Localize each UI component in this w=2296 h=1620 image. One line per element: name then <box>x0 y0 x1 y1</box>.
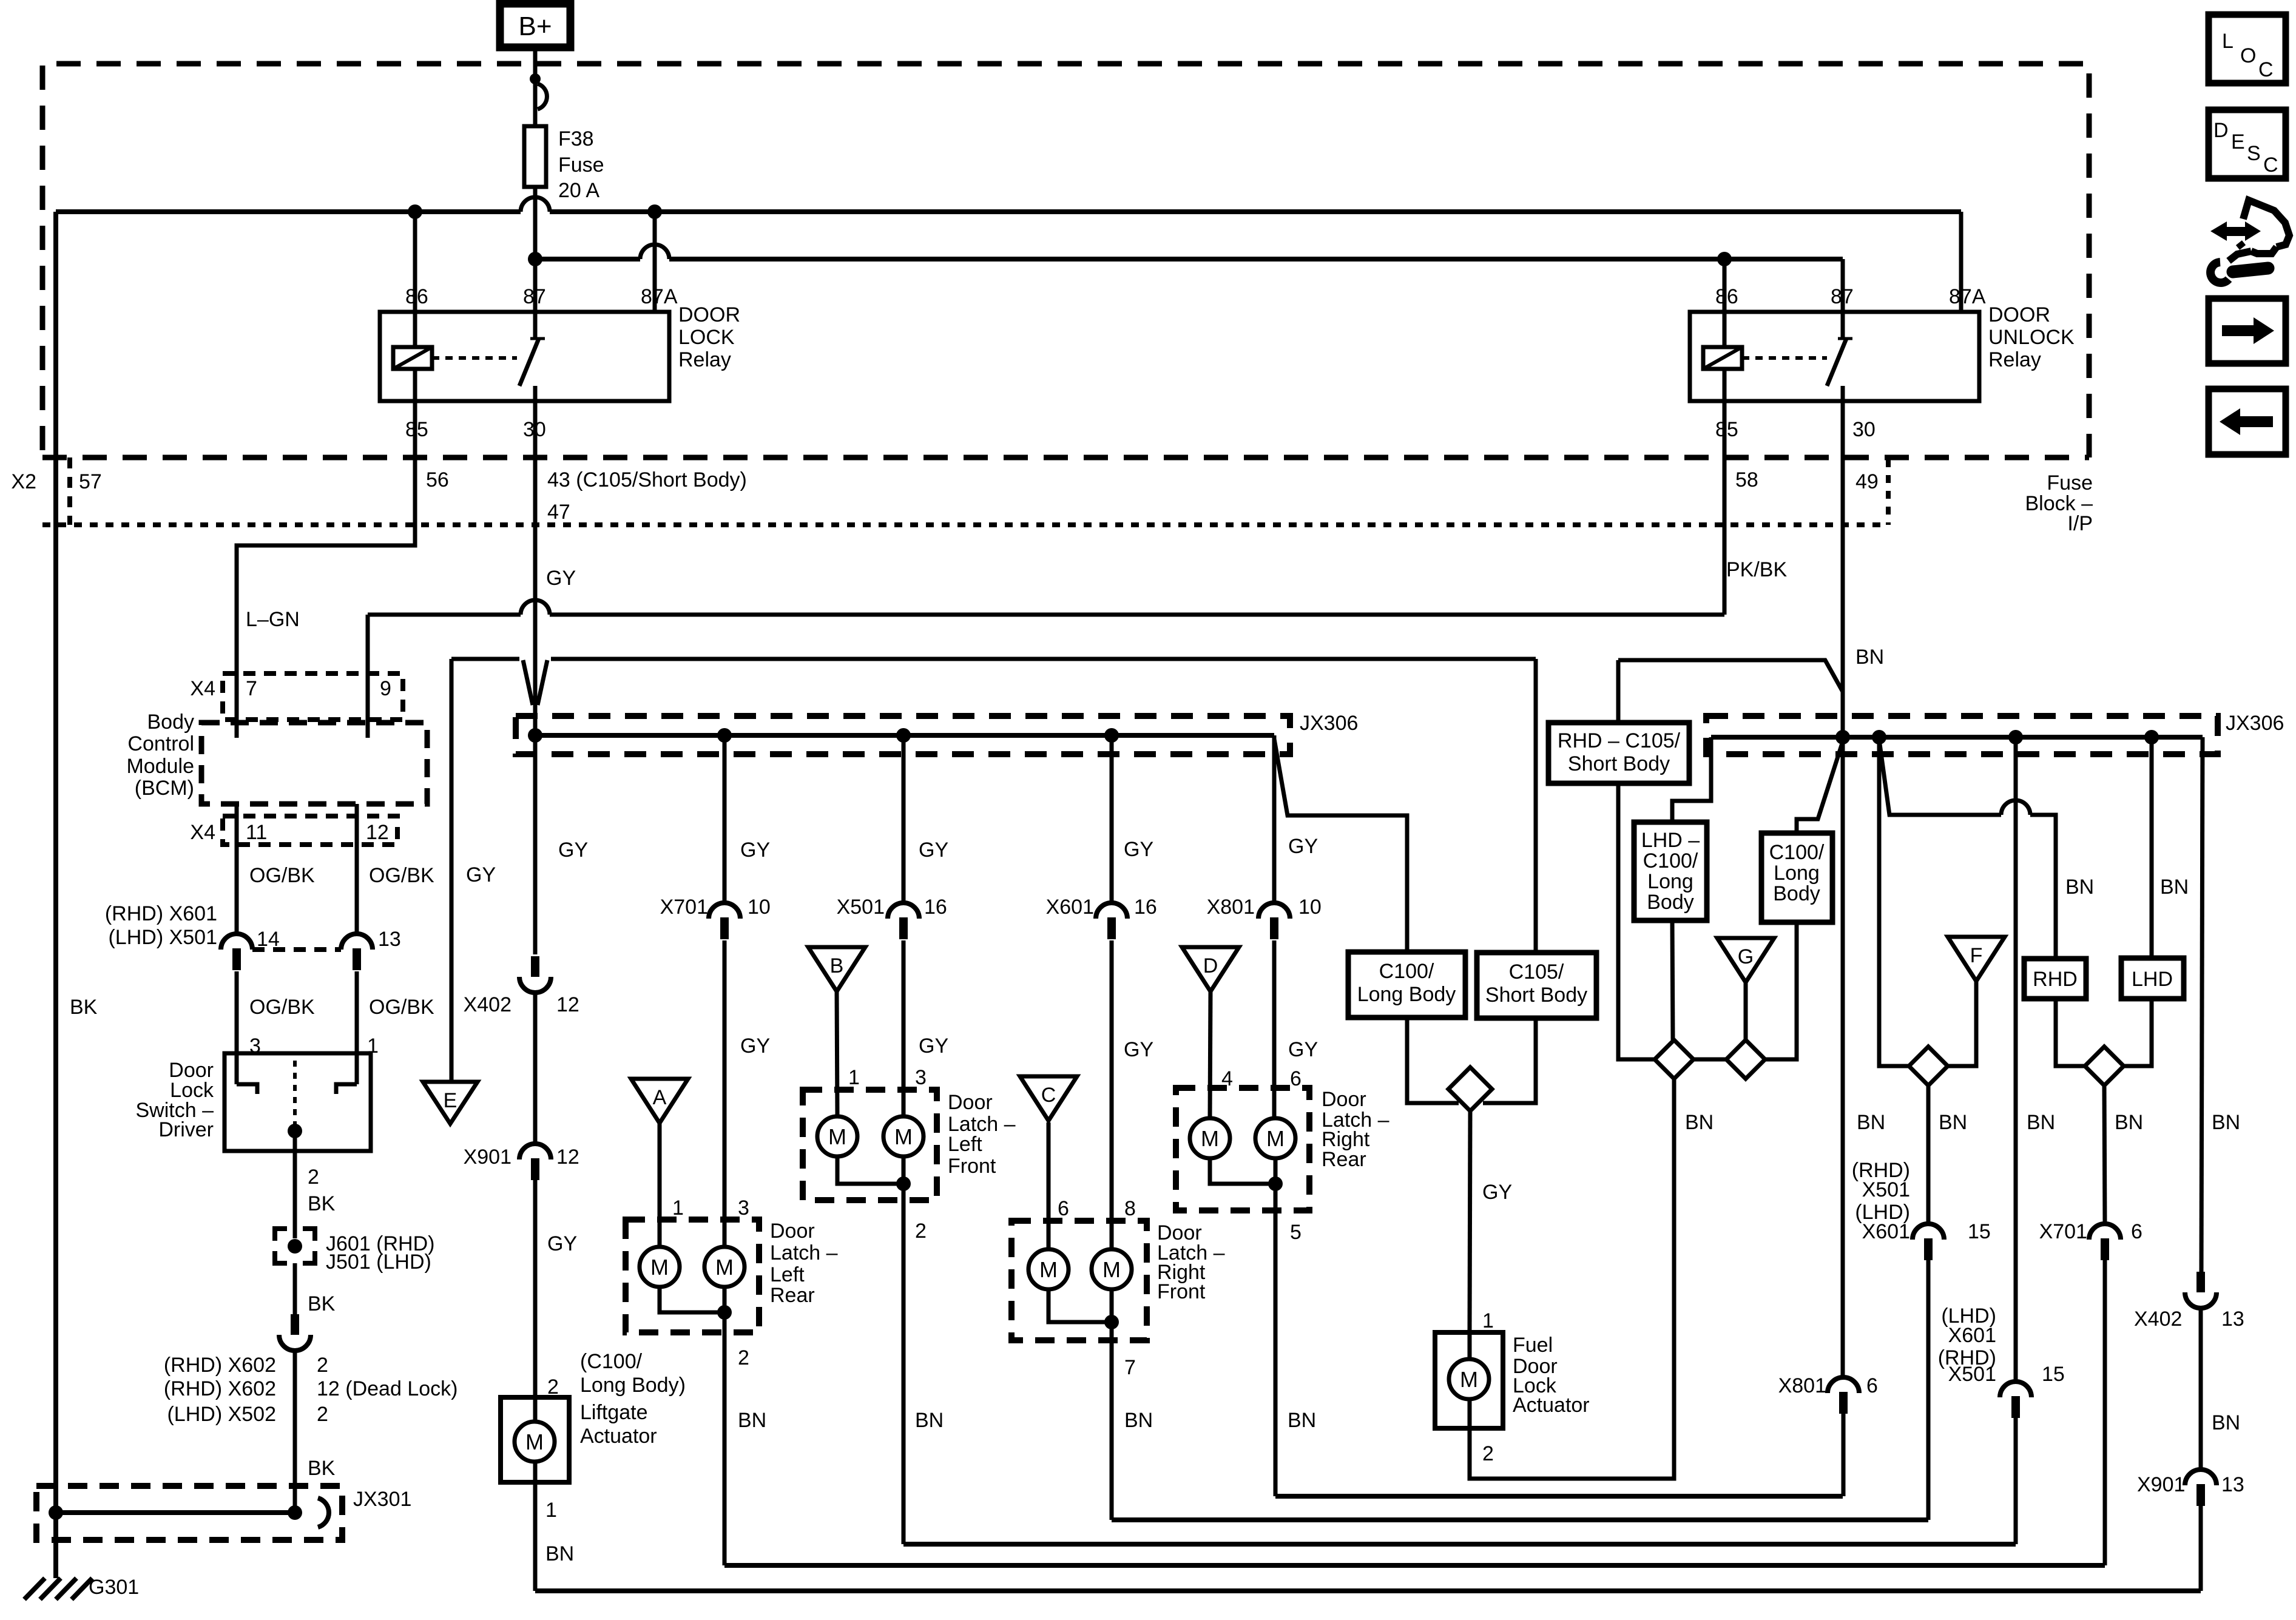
svg-text:BN: BN <box>1855 646 1884 669</box>
svg-text:BN: BN <box>2065 876 2094 899</box>
svg-text:3: 3 <box>738 1196 749 1220</box>
svg-text:Front: Front <box>948 1155 996 1178</box>
svg-text:2: 2 <box>1482 1442 1494 1465</box>
svg-text:2: 2 <box>738 1346 749 1369</box>
svg-text:BN: BN <box>738 1409 766 1432</box>
svg-text:Latch –: Latch – <box>770 1241 838 1264</box>
svg-text:12: 12 <box>366 821 389 844</box>
svg-text:JX306: JX306 <box>1300 712 1358 735</box>
svg-text:Body: Body <box>147 710 195 734</box>
svg-text:OG/BK: OG/BK <box>369 996 434 1019</box>
svg-text:GY: GY <box>740 839 770 862</box>
svg-text:S: S <box>2247 142 2261 165</box>
svg-text:1: 1 <box>672 1196 684 1220</box>
svg-text:15: 15 <box>2042 1363 2065 1386</box>
svg-text:X601: X601 <box>1862 1220 1910 1243</box>
svg-text:(RHD) X602: (RHD) X602 <box>164 1354 276 1377</box>
svg-text:E: E <box>2231 130 2245 154</box>
svg-text:GY: GY <box>466 863 496 886</box>
svg-text:Long Body): Long Body) <box>580 1374 686 1397</box>
svg-text:BN: BN <box>1857 1111 1885 1134</box>
svg-text:BN: BN <box>545 1542 574 1565</box>
svg-text:5: 5 <box>1290 1221 1302 1244</box>
svg-text:4: 4 <box>1221 1067 1233 1090</box>
svg-text:X901: X901 <box>2137 1473 2185 1496</box>
svg-text:DOOR: DOOR <box>678 303 740 326</box>
svg-text:E: E <box>444 1089 458 1112</box>
svg-text:87A: 87A <box>1949 285 1986 308</box>
svg-text:D: D <box>1203 954 1218 977</box>
svg-text:Relay: Relay <box>1988 348 2041 371</box>
svg-text:X402: X402 <box>464 993 512 1016</box>
svg-text:Fuse: Fuse <box>2047 471 2093 494</box>
svg-text:BN: BN <box>2027 1111 2055 1134</box>
svg-text:Fuel: Fuel <box>1513 1334 1553 1357</box>
svg-text:12: 12 <box>556 1146 579 1169</box>
svg-text:Rear: Rear <box>770 1284 815 1307</box>
svg-text:X701: X701 <box>2039 1220 2087 1243</box>
svg-text:Door: Door <box>1322 1088 1366 1111</box>
svg-text:X601: X601 <box>1948 1324 1996 1347</box>
svg-text:DOOR: DOOR <box>1988 303 2050 326</box>
svg-text:GY: GY <box>1124 1038 1153 1061</box>
svg-text:OG/BK: OG/BK <box>249 864 315 887</box>
svg-text:49: 49 <box>1855 470 1879 493</box>
svg-text:L–GN: L–GN <box>246 608 300 631</box>
svg-text:Relay: Relay <box>678 348 731 371</box>
svg-text:BK: BK <box>70 996 98 1019</box>
svg-text:Control: Control <box>127 732 194 755</box>
svg-text:6: 6 <box>1290 1067 1302 1090</box>
svg-text:BN: BN <box>2160 876 2189 899</box>
svg-text:7: 7 <box>246 677 257 700</box>
svg-text:L: L <box>2222 30 2234 53</box>
svg-text:Rear: Rear <box>1322 1148 1366 1171</box>
svg-text:X4: X4 <box>190 677 215 700</box>
svg-text:BN: BN <box>1288 1409 1316 1432</box>
svg-text:X501: X501 <box>837 896 885 919</box>
svg-text:LOCK: LOCK <box>678 326 735 349</box>
svg-text:Door: Door <box>948 1091 993 1114</box>
svg-text:Long: Long <box>1774 862 1820 885</box>
svg-text:(C100/: (C100/ <box>580 1350 643 1373</box>
svg-text:J501 (LHD): J501 (LHD) <box>326 1250 431 1274</box>
svg-text:2: 2 <box>317 1403 328 1426</box>
svg-text:BK: BK <box>308 1457 336 1480</box>
svg-text:BN: BN <box>1124 1409 1153 1432</box>
svg-text:BN: BN <box>1939 1111 1967 1134</box>
svg-text:GY: GY <box>546 567 576 590</box>
svg-text:X2: X2 <box>11 470 36 493</box>
svg-text:C100/: C100/ <box>1379 960 1434 983</box>
svg-text:X4: X4 <box>190 821 215 844</box>
svg-text:Left: Left <box>948 1133 982 1156</box>
svg-text:BK: BK <box>308 1292 336 1315</box>
svg-text:M: M <box>525 1429 544 1454</box>
svg-text:12 (Dead Lock): 12 (Dead Lock) <box>317 1377 458 1400</box>
svg-text:3: 3 <box>915 1066 927 1089</box>
svg-text:(RHD) X601: (RHD) X601 <box>105 902 217 925</box>
svg-text:X801: X801 <box>1778 1374 1826 1397</box>
svg-text:PK/BK: PK/BK <box>1726 558 1787 581</box>
svg-text:58: 58 <box>1735 468 1758 491</box>
svg-text:G301: G301 <box>89 1576 139 1599</box>
svg-text:(LHD) X502: (LHD) X502 <box>167 1403 276 1426</box>
svg-text:X801: X801 <box>1207 896 1255 919</box>
svg-text:Short Body: Short Body <box>1485 984 1587 1007</box>
svg-text:Actuator: Actuator <box>580 1425 657 1448</box>
svg-text:RHD – C105/: RHD – C105/ <box>1558 729 1681 752</box>
svg-text:O: O <box>2240 44 2256 67</box>
svg-text:6: 6 <box>1866 1374 1878 1397</box>
svg-text:X402: X402 <box>2134 1308 2182 1331</box>
svg-text:GY: GY <box>919 839 948 862</box>
svg-text:F: F <box>1970 944 1983 967</box>
svg-text:BK: BK <box>308 1192 336 1215</box>
svg-text:2: 2 <box>317 1354 328 1377</box>
svg-text:X901: X901 <box>464 1146 512 1169</box>
svg-text:C100/: C100/ <box>1769 841 1825 864</box>
svg-text:2: 2 <box>308 1166 319 1189</box>
svg-text:56: 56 <box>426 468 449 491</box>
svg-text:7: 7 <box>1124 1356 1136 1379</box>
svg-text:87: 87 <box>1831 285 1854 308</box>
svg-text:JX301: JX301 <box>353 1488 411 1511</box>
svg-text:M: M <box>1201 1126 1219 1151</box>
svg-text:JX306: JX306 <box>2226 712 2284 735</box>
svg-text:86: 86 <box>405 285 428 308</box>
svg-text:C105/: C105/ <box>1509 960 1564 984</box>
svg-text:M: M <box>715 1255 734 1280</box>
svg-text:13: 13 <box>378 928 401 951</box>
svg-text:43 (C105/Short Body): 43 (C105/Short Body) <box>547 468 747 491</box>
svg-text:GY: GY <box>919 1034 948 1058</box>
svg-text:87: 87 <box>523 285 546 308</box>
svg-text:(BCM): (BCM) <box>135 777 194 800</box>
svg-text:Front: Front <box>1157 1280 1206 1303</box>
svg-text:9: 9 <box>380 677 391 700</box>
svg-text:UNLOCK: UNLOCK <box>1988 326 2075 349</box>
svg-text:RHD: RHD <box>2033 968 2078 991</box>
svg-text:1: 1 <box>545 1499 557 1522</box>
svg-text:Long: Long <box>1647 870 1693 893</box>
svg-text:M: M <box>1039 1257 1058 1282</box>
svg-text:Short Body: Short Body <box>1568 752 1670 775</box>
svg-text:GY: GY <box>1482 1181 1512 1204</box>
svg-text:C: C <box>1041 1084 1056 1107</box>
svg-text:GY: GY <box>1124 838 1153 861</box>
svg-text:6: 6 <box>1058 1197 1069 1220</box>
svg-text:12: 12 <box>556 993 579 1016</box>
svg-text:57: 57 <box>79 470 102 493</box>
svg-text:Actuator: Actuator <box>1513 1394 1590 1417</box>
svg-text:G: G <box>1738 945 1754 968</box>
svg-text:C: C <box>2263 154 2278 177</box>
svg-text:F38: F38 <box>558 127 594 150</box>
svg-text:BN: BN <box>2115 1111 2143 1134</box>
svg-text:87A: 87A <box>641 285 678 308</box>
svg-text:86: 86 <box>1715 285 1738 308</box>
svg-text:M: M <box>828 1124 846 1149</box>
svg-text:15: 15 <box>1968 1220 1991 1243</box>
svg-text:2: 2 <box>915 1220 927 1243</box>
svg-text:LHD: LHD <box>2132 968 2173 991</box>
svg-text:Liftgate: Liftgate <box>580 1401 648 1424</box>
svg-text:B+: B+ <box>518 12 552 41</box>
svg-text:Body: Body <box>1773 882 1820 905</box>
svg-text:Body: Body <box>1647 891 1694 914</box>
svg-text:GY: GY <box>1288 835 1318 858</box>
svg-text:85: 85 <box>405 418 428 441</box>
svg-text:GY: GY <box>547 1232 577 1255</box>
svg-text:I/P: I/P <box>2067 512 2093 535</box>
svg-text:X501: X501 <box>1862 1178 1910 1201</box>
svg-text:GY: GY <box>1288 1038 1318 1061</box>
svg-text:8: 8 <box>1124 1197 1136 1220</box>
svg-text:10: 10 <box>1298 896 1322 919</box>
svg-text:X601: X601 <box>1046 896 1094 919</box>
svg-text:47: 47 <box>547 501 570 524</box>
svg-text:Long Body: Long Body <box>1357 983 1456 1006</box>
svg-text:16: 16 <box>924 896 947 919</box>
svg-text:X501: X501 <box>1948 1363 1996 1386</box>
svg-text:1: 1 <box>848 1066 860 1089</box>
svg-text:A: A <box>653 1086 667 1109</box>
svg-text:BN: BN <box>1685 1111 1714 1134</box>
svg-text:M: M <box>650 1255 669 1280</box>
svg-text:6: 6 <box>2131 1220 2142 1243</box>
svg-text:Driver: Driver <box>158 1118 214 1141</box>
svg-text:X701: X701 <box>660 896 708 919</box>
svg-text:11: 11 <box>246 821 267 844</box>
svg-text:85: 85 <box>1715 418 1738 441</box>
svg-text:(LHD) X501: (LHD) X501 <box>108 926 217 949</box>
svg-text:13: 13 <box>2221 1473 2244 1496</box>
svg-text:M: M <box>894 1124 913 1149</box>
svg-text:C: C <box>2258 58 2274 81</box>
svg-text:16: 16 <box>1134 896 1157 919</box>
svg-text:BN: BN <box>2212 1411 2240 1434</box>
svg-text:OG/BK: OG/BK <box>369 864 434 887</box>
svg-text:1: 1 <box>1482 1309 1494 1332</box>
svg-text:GY: GY <box>558 839 588 862</box>
svg-text:BN: BN <box>915 1409 944 1432</box>
svg-text:C100/: C100/ <box>1643 849 1698 872</box>
svg-text:Left: Left <box>770 1263 805 1286</box>
svg-text:D: D <box>2213 119 2229 142</box>
svg-text:Fuse: Fuse <box>558 154 604 177</box>
svg-text:B: B <box>830 954 844 977</box>
svg-text:Module: Module <box>126 755 194 778</box>
svg-text:(RHD) X602: (RHD) X602 <box>164 1377 276 1400</box>
svg-text:OG/BK: OG/BK <box>249 996 315 1019</box>
svg-text:Door: Door <box>770 1220 815 1243</box>
svg-text:30: 30 <box>1852 418 1876 441</box>
svg-text:GY: GY <box>740 1034 770 1058</box>
svg-text:M: M <box>1102 1257 1121 1282</box>
svg-text:M: M <box>1266 1126 1285 1151</box>
svg-text:BN: BN <box>2212 1111 2240 1134</box>
svg-text:LHD –: LHD – <box>1641 829 1700 852</box>
svg-text:10: 10 <box>748 896 771 919</box>
svg-text:20 A: 20 A <box>558 179 599 202</box>
svg-text:M: M <box>1460 1367 1478 1392</box>
svg-text:13: 13 <box>2221 1308 2244 1331</box>
